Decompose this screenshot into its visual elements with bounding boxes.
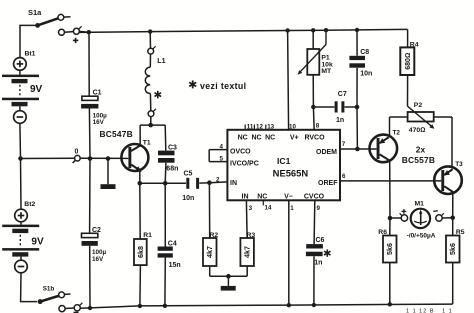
svg-text:Bt2: Bt2 [24,201,35,208]
svg-text:T2: T2 [393,129,401,136]
inductor L1 with terminals [145,32,156,126]
svg-text:R5: R5 [456,229,465,236]
wire pin 1 down to bottom rail [288,200,290,305]
svg-text:R3: R3 [247,232,256,239]
capacitor C4 15n [158,183,173,305]
terminal 0 [73,155,81,163]
svg-text:15n: 15n [169,262,181,269]
asterisk (C6) [324,249,330,256]
label - (M1 right) [433,210,437,213]
asterisk (L1) [155,91,162,99]
node emitter/C4 [163,181,168,186]
potentiometer P1 10k MT [298,30,326,107]
svg-text:68n: 68n [166,165,178,172]
svg-text:14: 14 [265,205,272,212]
svg-text:R2: R2 [210,232,219,239]
wire collector bar (T1/L1/C3) [140,124,165,126]
ground (bar below R2/R3) [221,276,236,290]
svg-text:9V: 9V [31,236,44,247]
svg-text:R4: R4 [410,41,419,48]
capacitor C5 10n [186,178,227,189]
svg-text:OREF: OREF [318,180,338,187]
svg-text:680Ω: 680Ω [405,53,412,70]
wire V+ pin 10 to top rail [288,31,289,130]
wire pin4-pin5 bracket [208,150,210,162]
svg-text:RVCO: RVCO [304,134,325,141]
node R1/bottom rail [138,304,142,308]
svg-text:11: 11 [247,123,254,130]
svg-text:12: 12 [256,123,263,130]
svg-text:V−: V− [284,193,293,200]
potentiometer P2 470ohm [390,106,453,168]
svg-text:5k6: 5k6 [385,243,394,255]
node C7/C8 [355,105,360,110]
svg-text:P1: P1 [321,55,330,62]
wire T2 collector down to node A [389,160,391,218]
capacitor C2 100u 16V electrolytic [82,159,98,309]
svg-text:6k8: 6k8 [136,246,145,258]
node A (T2 collector / M1 / R6) [388,216,393,221]
node pin1/bottom rail [287,303,291,307]
svg-text:16V: 16V [93,119,105,126]
resistor R5 5k6 [446,218,460,304]
resistor R6 5k6 [383,218,397,304]
connector top (plug pair, + terminal) [59,26,89,35]
switch S1b [38,292,71,304]
pin 4 wire and number [209,149,227,151]
node top rail / V+ pin10 [285,28,289,32]
node C6/bottom rail [312,303,316,307]
svg-text:vezi textul: vezi textul [200,81,246,91]
wire Bt1 minus to 0 node [19,123,22,158]
node emitter/R1 [138,181,143,186]
svg-text:T3: T3 [455,161,463,168]
svg-text:IC1: IC1 [277,156,291,166]
node top rail / P1 top [311,28,315,32]
svg-text:R6: R6 [378,229,387,236]
capacitor C7 1n [313,101,357,112]
svg-text:16V: 16V [92,256,104,263]
svg-text:C1: C1 [93,89,102,96]
resistor R1 6k8 [134,183,147,306]
resistor R2 4k7 [203,183,217,277]
wire T1 collector up [139,125,141,146]
node 0/C1-C2 column [88,156,93,161]
svg-text:7: 7 [342,141,346,148]
svg-text:IVCO/PC: IVCO/PC [230,160,259,167]
svg-text:4k7: 4k7 [243,246,252,258]
meter M1 [390,209,453,228]
svg-text:ODEM: ODEM [316,149,337,156]
wire ODEM pin 7 to T2 base [340,148,377,150]
pin 5 wire and number [209,161,227,163]
svg-text:NE565N: NE565N [273,167,309,178]
node B (T3 collector / M1 / R5) [450,216,455,221]
ground (chassis bar at T1 base) [101,159,116,190]
wire 0 rail to T1 base [21,157,75,159]
svg-text:P2: P2 [414,102,423,109]
node top rail / L1 [148,29,152,33]
wire top rail [80,29,408,32]
svg-text:M1: M1 [415,200,425,207]
resistor R3 4k7 [240,200,254,276]
svg-text:C7: C7 [338,91,347,98]
svg-text:1n: 1n [314,260,322,267]
svg-text:5: 5 [220,155,224,162]
svg-text:NC: NC [265,134,275,141]
svg-text:T1: T1 [143,139,151,146]
svg-text:3: 3 [249,205,253,212]
svg-text:10n: 10n [360,71,372,78]
svg-text:1 1 12 B 1 1: 1 1 12 B 1 1 [406,309,453,313]
svg-text:10n: 10n [182,195,194,202]
svg-text:NC: NC [257,193,267,200]
svg-text:C8: C8 [360,49,369,56]
transistor T1 BC547B (NPN) [121,144,148,172]
svg-text:1n: 1n [336,117,344,124]
svg-text:4k7: 4k7 [205,246,214,258]
node L1 bottom [148,123,153,128]
svg-text:NC: NC [251,134,261,141]
label + (top connector) [73,38,78,43]
node R6/bottom rail [388,302,392,306]
svg-text:C5: C5 [184,171,193,178]
svg-text:R1: R1 [143,232,152,239]
battery Bt1 [2,58,39,124]
pin 12 stub and number [253,125,255,130]
wire Bt2 minus to switch S1b [21,273,37,302]
svg-text:0: 0 [75,149,79,156]
svg-text:OVCO: OVCO [230,148,251,155]
wire R2/R3 common [210,275,248,277]
svg-text:C6: C6 [316,237,325,244]
node P1/C7/pin8 [311,105,316,110]
pin 14 stub and number [262,200,264,205]
resistor R4 680ohm [400,29,414,106]
svg-text:9V: 9V [30,84,43,95]
wire T1 emitter row [139,171,141,184]
node top rail / C8 [355,28,359,32]
node R2-R3 ground [226,274,231,279]
node 0 (battery midpoint) [18,156,23,161]
svg-text:IN: IN [230,180,237,187]
svg-text:IN: IN [242,193,249,200]
connector bottom (plug pair) [59,303,83,313]
svg-text:Bt1: Bt1 [25,51,36,58]
svg-text:C4: C4 [168,241,177,248]
node bottom rail / C2 [88,306,92,310]
wire pin 8 up [312,107,315,130]
transistor T2 BC557B (PNP) [370,135,398,163]
wire 0 terminal to T1 [80,157,128,159]
pin 13 stub and number [265,125,267,130]
battery Bt2 [2,159,39,273]
svg-text:10: 10 [289,123,296,130]
svg-text:-/0/+50µA: -/0/+50µA [407,232,436,239]
label + (M1 left) [402,209,407,214]
capacitor C8 10n [349,30,365,107]
node ODEM/T2 base [355,147,360,152]
node pin2/R2 [207,180,212,185]
svg-text:S1b: S1b [43,286,55,293]
wire Bt1 plus to switch S1a [20,25,37,57]
svg-text:BC547B: BC547B [100,129,133,139]
svg-text:C2: C2 [92,227,101,234]
svg-text:5k6: 5k6 [448,243,457,255]
node top rail / C1 [87,30,91,34]
svg-text:1: 1 [290,205,294,212]
svg-text:2x: 2x [416,144,426,154]
svg-text:13: 13 [267,123,274,130]
node 0/ground branch [106,156,111,161]
svg-text:470Ω: 470Ω [409,127,426,134]
switch S1a [35,14,70,27]
transistor T3 BC557B (PNP) [434,166,462,194]
node C4/bottom rail [163,304,167,308]
svg-text:BC557B: BC557B [402,155,435,165]
op-amp/PLL IC1 NE565N body [227,130,340,201]
svg-text:2: 2 [216,176,220,183]
svg-text:S1a: S1a [28,8,42,17]
svg-text:MT: MT [321,68,332,75]
pin 9 wire and capacitor C6 1n [306,200,323,305]
note: vezi textul [189,80,196,88]
capacitor C1 100u 16V electrolytic [81,32,98,158]
wire C7-C8 node down to ODEM node [356,107,358,149]
svg-text:L1: L1 [157,58,165,65]
svg-text:8: 8 [316,122,320,129]
svg-text:V+: V+ [290,134,299,141]
wire T3 collector down to node B [452,192,454,218]
svg-text:9: 9 [317,205,321,212]
wire OREF pin 6 to T3 base [340,180,441,182]
svg-text:6: 6 [342,173,346,180]
wire bottom rail [81,304,453,308]
capacitor C3 68n [158,125,175,183]
svg-text:CVCO: CVCO [304,193,325,200]
svg-text:4: 4 [220,143,224,150]
node top rail / P1 wiper [324,28,328,32]
pin 11 stub and number [244,125,246,130]
svg-text:C3: C3 [168,145,177,152]
svg-text:NC: NC [238,134,248,141]
